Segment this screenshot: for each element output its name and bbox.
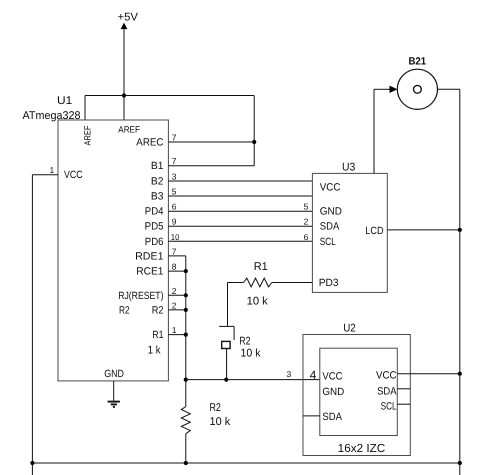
svg-text:AREC: AREC xyxy=(136,137,164,149)
svg-text:1 k: 1 k xyxy=(148,345,161,357)
svg-text:GND: GND xyxy=(104,368,124,380)
svg-text:R1: R1 xyxy=(152,329,163,341)
svg-text:5: 5 xyxy=(304,202,309,212)
svg-text:B3: B3 xyxy=(151,191,164,203)
svg-text:+5V: +5V xyxy=(118,12,139,24)
svg-text:10 k: 10 k xyxy=(210,416,231,428)
svg-text:RDE1: RDE1 xyxy=(135,250,164,262)
svg-text:ATmega328: ATmega328 xyxy=(23,110,81,122)
svg-text:PD5: PD5 xyxy=(145,221,164,233)
svg-text:R1: R1 xyxy=(254,261,268,273)
svg-text:2: 2 xyxy=(172,286,177,296)
svg-text:8: 8 xyxy=(172,262,177,272)
svg-text:PD3: PD3 xyxy=(319,277,339,289)
svg-text:U2: U2 xyxy=(343,322,356,334)
svg-text:B21: B21 xyxy=(408,56,426,68)
svg-text:PD6: PD6 xyxy=(145,236,164,248)
svg-text:10 k: 10 k xyxy=(241,348,261,360)
svg-text:U1: U1 xyxy=(57,95,72,107)
svg-text:GND: GND xyxy=(320,206,342,218)
svg-text:1: 1 xyxy=(172,325,177,335)
svg-text:R2: R2 xyxy=(210,402,221,414)
svg-text:VCC: VCC xyxy=(376,370,397,382)
svg-text:GND: GND xyxy=(322,386,344,398)
svg-text:AREF: AREF xyxy=(118,125,140,135)
svg-text:6: 6 xyxy=(304,232,309,242)
svg-text:16x2 IZC: 16x2 IZC xyxy=(338,442,386,455)
svg-text:SDA: SDA xyxy=(377,385,397,397)
svg-text:VCC: VCC xyxy=(322,370,342,382)
svg-text:RJ(RESET): RJ(RESET) xyxy=(118,290,163,302)
svg-text:5: 5 xyxy=(172,187,177,197)
svg-text:6: 6 xyxy=(172,202,177,212)
svg-text:9: 9 xyxy=(172,217,177,227)
svg-text:LCD: LCD xyxy=(365,225,384,237)
svg-text:RCE1: RCE1 xyxy=(136,266,163,278)
svg-text:7: 7 xyxy=(172,133,177,143)
svg-text:VCC: VCC xyxy=(64,169,83,181)
svg-text:2: 2 xyxy=(304,217,309,227)
svg-text:1: 1 xyxy=(49,165,54,175)
svg-text:SCL: SCL xyxy=(381,400,397,412)
svg-text:10 k: 10 k xyxy=(247,295,269,307)
svg-text:R2: R2 xyxy=(152,304,164,316)
svg-text:7: 7 xyxy=(172,156,177,166)
svg-text:10: 10 xyxy=(171,232,180,242)
svg-text:AREF: AREF xyxy=(83,125,93,145)
svg-text:VCC: VCC xyxy=(320,182,341,194)
svg-text:SDA: SDA xyxy=(322,411,342,423)
svg-text:R2: R2 xyxy=(119,304,130,316)
svg-text:B2: B2 xyxy=(151,176,164,188)
svg-text:4: 4 xyxy=(310,368,317,382)
svg-text:U3: U3 xyxy=(342,161,355,173)
svg-text:2: 2 xyxy=(172,300,177,310)
svg-text:R2: R2 xyxy=(239,336,250,348)
svg-text:SCL: SCL xyxy=(320,236,336,248)
svg-text:7: 7 xyxy=(172,246,177,256)
svg-text:PD4: PD4 xyxy=(145,206,164,218)
svg-text:3: 3 xyxy=(286,369,291,379)
svg-text:3: 3 xyxy=(172,172,177,182)
svg-text:SDA: SDA xyxy=(320,221,340,233)
svg-text:B1: B1 xyxy=(151,160,164,172)
